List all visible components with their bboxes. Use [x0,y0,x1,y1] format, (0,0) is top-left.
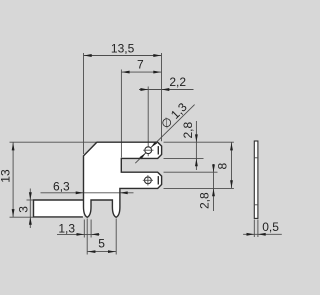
extension line tab2 top right [164,171,218,173]
svg-text:2,8: 2,8 [181,122,195,139]
extension line body left (x=83.5) [83,53,85,154]
extension line pin2 centre [115,219,117,255]
extension line strip left edge [253,220,255,238]
extension line top edge to left (13 dim) [10,141,97,143]
dimension 1,3 pin width [57,233,100,235]
svg-text:2,8: 2,8 [198,192,212,209]
svg-text:13: 13 [0,169,13,183]
tab1 tip chamfer edge [157,146,159,154]
svg-text:13,5: 13,5 [111,42,135,56]
extension line tab1 top right [164,141,234,143]
extension line strip right edge [257,220,259,238]
terminal body outline fill [84,142,162,217]
hole 1 [145,147,152,154]
extension line pin1 right edge [90,220,92,238]
svg-text:5: 5 [98,237,105,251]
hole 2 [145,177,152,184]
terminal body outline stroke [84,142,162,217]
dimension 8 overall tabs height [231,142,233,188]
dimension 2,8 lower tab width [213,164,215,211]
svg-text:1,3: 1,3 [58,221,75,235]
dimension 0,5 material thickness [243,233,282,235]
extension line slot left (x=121.4) [120,70,122,158]
tab2 tip chamfer edge [157,176,159,184]
extension line flange top short [27,199,34,201]
side view strip [254,141,258,218]
extension line tab2 bottom right [164,187,234,189]
flange outline [34,200,84,217]
extension line hole1 centre vertical [147,87,149,157]
extension line flange bottom to left [10,216,34,218]
dimension 6,3 [41,192,134,194]
svg-text:2,2: 2,2 [169,75,186,89]
strip bend tick lower [254,204,258,206]
extension line tab tip (x=161.5) [161,53,163,141]
svg-text:6,3: 6,3 [53,180,70,194]
leader and label diameter 1,3 for hole [135,152,146,163]
flange fill [34,200,84,217]
svg-text:3: 3 [16,206,30,213]
dimension 5 pin pitch [87,251,116,253]
extension line tab1 bottom right [164,157,204,159]
strip bend tick upper [254,157,258,159]
extension line pin1 centre [86,219,88,255]
dimension 3 flange height [29,189,31,229]
dimension 2,2 [139,89,194,91]
dimension 13,5 [84,55,162,57]
dimension 7 [121,71,161,73]
svg-text:0,5: 0,5 [262,220,279,234]
dimension 2,8 upper tab width [195,121,197,170]
svg-text:8: 8 [215,163,229,170]
dimension 13 overall height [12,142,14,217]
svg-text:7: 7 [137,58,144,72]
extension line pin1 left edge [83,220,85,238]
